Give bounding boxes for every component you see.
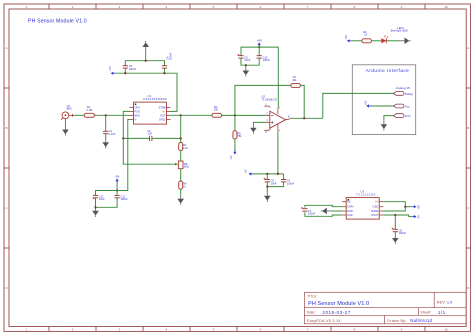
ground under C5 C4: [264, 192, 271, 202]
capacitor C12: [115, 195, 120, 197]
svg-text:PHsig: PHsig: [405, 92, 413, 96]
svg-text:Gnd: Gnd: [405, 114, 411, 118]
U3 pin names left: [347, 200, 354, 217]
node V- rail junction: [277, 173, 279, 175]
module box Arduino Interface: [352, 65, 415, 135]
title block divider Sheet: [417, 308, 419, 316]
frame zone letters left: [5, 46, 8, 290]
wire CAP- to C7 bottom: [305, 212, 342, 216]
power +5V arrow left Vcc: [366, 104, 371, 107]
svg-text:100nF: 100nF: [169, 52, 173, 60]
svg-text:Blue light 0603: Blue light 0603: [391, 29, 409, 33]
wire U3 SHDN to +5V: [383, 207, 405, 211]
U2 V- pin stub: [277, 124, 279, 133]
svg-text:B: B: [5, 126, 7, 130]
svg-text:STRB: STRB: [159, 106, 166, 110]
wire R9 down: [234, 139, 236, 151]
wire BNC to R1: [74, 114, 85, 116]
svg-text:+5V: +5V: [344, 35, 348, 40]
svg-text:+5V: +5V: [363, 100, 367, 105]
title block divider DrawnBy: [384, 315, 386, 324]
capacitor C11: [93, 195, 98, 197]
wire junction down to R9: [234, 115, 236, 130]
wire output to Arduino: [323, 93, 394, 118]
wire R4 to R5: [180, 151, 182, 161]
label R6 1k: [183, 182, 187, 189]
wire -5V rail U2: [254, 173, 284, 175]
wire -5V stem: [116, 183, 118, 190]
svg-text:-5V: -5V: [417, 215, 421, 219]
label C10 100nF: [263, 55, 271, 62]
connector U4 BNC: [61, 112, 74, 120]
capacitor C5: [265, 180, 270, 182]
U3 pin names right: [371, 200, 379, 217]
U2 plus sign: [271, 121, 273, 123]
node C11 bottom junction: [94, 206, 96, 208]
svg-text:OUT: OUT: [160, 113, 166, 117]
svg-text:CA3140AMZ96: CA3140AMZ96: [143, 97, 167, 101]
svg-text:Vcc: Vcc: [405, 105, 410, 109]
label R7 30k: [292, 75, 297, 82]
ground at U2 pin3: [250, 124, 257, 134]
svg-text:VOUT: VOUT: [371, 213, 379, 217]
op-amp U1 body: [134, 102, 167, 124]
node POS/C2 junction: [122, 137, 124, 139]
svg-text:100nF: 100nF: [129, 67, 137, 71]
title block outline: [304, 292, 466, 324]
svg-text:OFS: OFS: [134, 106, 140, 110]
svg-text:TL081BCD: TL081BCD: [262, 97, 277, 101]
capacitor C3: [123, 66, 128, 68]
svg-text:NC: NC: [347, 200, 351, 204]
wire VOUT junction to C8: [394, 215, 396, 229]
wire U3 V+ to +5V: [383, 202, 405, 207]
wire C4 top: [283, 174, 285, 180]
frame zone numbers bottom: [26, 328, 448, 332]
ground right of LED1: [401, 38, 411, 45]
node gnd rail junction: [145, 60, 147, 62]
label C9 rotated: [166, 52, 173, 60]
wire U2 output: [289, 117, 323, 119]
label C2 1uF: [147, 129, 152, 136]
label C7 100uF: [308, 209, 316, 216]
wire -5V junction down to C12: [116, 191, 118, 196]
wire BNC to ground: [64, 119, 66, 126]
wire C3 C9 top rail: [125, 61, 164, 66]
charge pump U3 body: [346, 198, 379, 220]
label R5 5KΩ: [184, 162, 189, 169]
wire U1 V- down to -5V rail: [118, 120, 129, 191]
wire C3 bottom: [124, 68, 126, 73]
capacitor C4: [281, 180, 286, 182]
label R9 75k: [237, 131, 242, 138]
node output junction: [303, 117, 305, 119]
capacitor C6: [238, 56, 243, 58]
svg-text:10uF: 10uF: [271, 181, 277, 185]
svg-text:10uF: 10uF: [99, 197, 105, 201]
svg-text:EasyEDA V5.3.14: EasyEDA V5.3.14: [307, 319, 341, 323]
svg-text:1uF: 1uF: [148, 131, 153, 135]
wire +5V to R2: [352, 40, 362, 42]
ground under C1: [102, 139, 109, 149]
LED LED1: [381, 36, 388, 44]
capacitor C9: [162, 66, 167, 68]
resistor R1: [84, 113, 94, 117]
U2 pin8 stub: [264, 129, 270, 131]
svg-text:POS: POS: [134, 109, 140, 113]
wire C2 right to chain: [152, 137, 181, 139]
wire junction to +5V arrow: [405, 206, 411, 208]
power -5V arrow down at R9: [233, 150, 236, 155]
wire U2 V- down to -5V rail: [277, 133, 279, 174]
node +5V right junction: [404, 206, 406, 208]
svg-text:BNC: BNC: [67, 107, 73, 111]
label C11 10uF: [99, 194, 105, 201]
svg-text:PH Sensor Module V1.0: PH Sensor Module V1.0: [308, 301, 369, 307]
wire +5V rail: [241, 47, 278, 108]
wire Gnd pin: [384, 116, 394, 121]
resistor R9: [233, 131, 237, 139]
U2 V+ pin stub: [277, 108, 279, 114]
wire OUT junction down: [180, 115, 182, 142]
wire GND pin to ground arrow: [330, 210, 342, 212]
C5 plus mark: [264, 178, 266, 180]
svg-text:NullnVo1d: NullnVo1d: [410, 318, 432, 323]
frame ticks left: [4, 88, 9, 248]
capacitor C7: [302, 209, 307, 211]
U1 left pin stubs: [130, 108, 134, 120]
svg-text:100nF: 100nF: [263, 58, 271, 62]
node C9 bottom: [163, 72, 165, 74]
ground under BNC: [62, 126, 69, 136]
svg-text:V+: V+: [162, 109, 166, 113]
svg-text:A: A: [467, 46, 469, 50]
capacitor C2: [150, 136, 152, 141]
svg-text:30k: 30k: [214, 108, 219, 112]
power +5V arrow left at U1 rail: [111, 72, 116, 75]
svg-text:TC1121COA: TC1121COA: [356, 193, 376, 197]
frame ticks top: [49, 4, 425, 9]
wire R3 to U2 pin2: [222, 114, 267, 116]
node C2 right junction: [180, 137, 182, 139]
U1 pin names left: [134, 106, 140, 122]
wire +5V stem to rail: [258, 45, 260, 56]
svg-text:100nF: 100nF: [120, 197, 128, 201]
svg-text:Date:: Date:: [307, 310, 316, 314]
svg-text:TITLE:: TITLE:: [307, 295, 317, 299]
capacitor C8: [393, 229, 398, 231]
power -5V arrow left U2: [249, 172, 254, 175]
label C5 10uF: [271, 179, 277, 186]
svg-text:+5V: +5V: [257, 39, 264, 43]
C7 plus mark: [301, 207, 303, 209]
ground under R6: [177, 195, 184, 205]
power +5V arrow right U3: [412, 205, 417, 208]
U1 pin1 dot: [135, 103, 137, 105]
wire R7 left leg: [235, 85, 291, 115]
svg-text:+5V: +5V: [417, 205, 421, 210]
resistor R4: [179, 143, 183, 151]
wire CAP+ to C7 top: [305, 205, 342, 207]
U3 left pin stubs: [342, 202, 346, 215]
wire -5V rail to C11: [96, 191, 118, 196]
wire R1 to U1 NEG: [94, 114, 129, 116]
svg-text:REV: 1.0: REV: 1.0: [437, 300, 453, 305]
svg-text:B: B: [467, 126, 469, 130]
U1 right pin stubs: [167, 108, 171, 120]
frame zone numbers top: [26, 5, 448, 9]
op-amp U2 triangle: [270, 111, 286, 128]
node VOUT junction: [394, 214, 396, 216]
U2 pin6 stub: [286, 118, 290, 121]
label C6 10uF: [244, 55, 250, 62]
wire LED1 to ground: [386, 40, 401, 42]
label U1 CA3140AMZ96: [143, 94, 167, 101]
resistor R2: [362, 39, 372, 43]
resistor R6: [179, 181, 183, 189]
node -5V rail junction: [116, 189, 118, 191]
svg-text:75k: 75k: [237, 134, 242, 138]
label C4 100nF: [287, 179, 295, 186]
svg-text:4.7M: 4.7M: [86, 108, 93, 112]
svg-text:2018-03-27: 2018-03-27: [322, 310, 351, 315]
title block divider REV: [433, 292, 435, 307]
svg-text:5KΩ: 5KΩ: [184, 165, 189, 169]
svg-text:SHDN: SHDN: [371, 209, 378, 213]
label R4 2.2k: [183, 143, 189, 150]
resistor R3: [212, 113, 222, 117]
node bottom rail junction: [245, 64, 247, 66]
pin Vcc flag: [393, 104, 404, 108]
power +5V arrow left LED: [347, 39, 352, 42]
wire junction to C2 left: [123, 137, 149, 139]
frame zone letters right: [467, 46, 470, 290]
capacitor C10: [257, 56, 262, 58]
svg-text:100nF: 100nF: [287, 181, 295, 185]
U3 pin1 dot: [348, 199, 350, 201]
ground under C8: [392, 235, 399, 245]
ground under Gnd pin: [381, 121, 388, 131]
wire C11 C12 bottom rail: [96, 198, 118, 207]
wire C6 C10 bottom rail: [241, 58, 259, 65]
node C5 top junction: [266, 173, 268, 175]
label C12 100nF: [120, 194, 128, 201]
title block row line 1: [304, 307, 466, 309]
capacitor C1: [103, 131, 108, 133]
wire U2 pin3 to ground: [253, 122, 266, 124]
wire U3 VOUT to -5V arrow: [383, 215, 411, 217]
pin Gnd flag: [393, 114, 404, 118]
wire U1 OUT to R3: [171, 114, 213, 116]
label R2 1k: [363, 30, 367, 37]
svg-text:-5V: -5V: [229, 155, 233, 159]
wire Vcc pin: [371, 105, 394, 107]
svg-text:NEG: NEG: [134, 113, 140, 117]
label LED1 Blue light 0603: [391, 26, 409, 33]
svg-text:GND: GND: [347, 209, 353, 213]
node +5V rail junction: [258, 46, 260, 48]
svg-text:100uF: 100uF: [308, 212, 316, 216]
svg-text:Drawn By:: Drawn By:: [387, 319, 406, 323]
svg-text:A: A: [5, 46, 7, 50]
C8 plus mark: [392, 228, 394, 230]
R5 wiper arrow: [175, 163, 178, 166]
wire R2 to LED1: [371, 40, 381, 42]
U2 pin3 stub: [266, 121, 270, 123]
frame ticks bottom: [49, 327, 425, 332]
label C1 2.2nF: [109, 129, 116, 136]
svg-text:10: 10: [444, 328, 448, 332]
wire U1 POS to feedback column: [123, 111, 175, 164]
wire C5 C4 bottom rail: [267, 182, 283, 187]
svg-text:10uF: 10uF: [244, 58, 250, 62]
label U4 BNC: [67, 104, 73, 111]
svg-text:Analog 15: Analog 15: [396, 86, 410, 90]
ground under C6 C10: [245, 65, 247, 67]
wire R6 to ground: [180, 189, 182, 195]
wire C9 bottom: [164, 68, 166, 73]
wire C1 to ground: [105, 134, 107, 139]
svg-text:100uF: 100uF: [399, 231, 407, 235]
svg-text:1/1: 1/1: [438, 310, 446, 315]
label R1 4.7M: [86, 105, 93, 112]
wire R5 to R6: [180, 169, 182, 181]
wire +5V rail under C3 C9: [116, 73, 177, 111]
wire R7 right leg: [300, 85, 304, 118]
svg-text:OFS2: OFS2: [159, 118, 166, 122]
op-amp U2 label: [262, 95, 277, 102]
U2 pin2 stub: [266, 114, 270, 116]
power +5V arrow up top: [258, 42, 261, 47]
U1 pin names right: [159, 106, 166, 122]
resistor R7: [291, 83, 301, 87]
wire junction to C1: [105, 115, 107, 131]
pin PHsig flag: [393, 92, 404, 96]
svg-text:PH Sensor Module V1.0: PH Sensor Module V1.0: [28, 18, 87, 24]
power -5V arrow up: [116, 178, 119, 183]
svg-text:2.2nF: 2.2nF: [109, 132, 116, 136]
wire C5 bottom to ground: [266, 187, 268, 193]
power -5V arrow right U3: [412, 215, 417, 218]
C11 plus mark: [93, 197, 95, 199]
svg-text:10: 10: [444, 5, 448, 9]
svg-text:Sheet:: Sheet:: [420, 310, 431, 314]
svg-text:2.2k: 2.2k: [183, 146, 189, 150]
svg-text:V+: V+: [375, 200, 379, 204]
svg-text:30k: 30k: [292, 78, 297, 82]
U2 pin1 stub: [264, 106, 270, 108]
title block row line 2: [304, 314, 466, 316]
ground left of U3: [321, 208, 331, 215]
node OUT junction: [180, 114, 182, 116]
ground under C11: [92, 207, 99, 217]
svg-text:V-: V-: [134, 118, 137, 122]
svg-text:CAP-: CAP-: [347, 213, 353, 217]
svg-text:-5V: -5V: [244, 169, 248, 173]
C6 plus mark: [237, 54, 239, 56]
U2 minus sign: [271, 114, 273, 116]
node C3 bottom: [124, 72, 126, 74]
svg-text:Arduino Interface: Arduino Interface: [366, 68, 410, 73]
resistor R5 preset: [178, 161, 183, 169]
node input junction: [105, 114, 107, 116]
label R3 30k: [214, 105, 219, 112]
frame ticks right: [466, 88, 470, 248]
label C8 100uF: [399, 228, 407, 235]
node inverting input junction: [234, 114, 236, 116]
svg-text:CAP+: CAP+: [347, 205, 354, 209]
label U3 TC1121COA: [356, 190, 376, 197]
svg-text:OSC: OSC: [373, 205, 379, 209]
node C5 bottom junction: [266, 186, 268, 188]
svg-text:+5V: +5V: [108, 66, 112, 71]
wire C8 to ground: [394, 232, 396, 235]
wire C5 top: [266, 174, 268, 180]
label C3 100nF: [129, 64, 137, 71]
ground top of C3 C9 rail: [145, 51, 147, 61]
U3 right pin stubs: [379, 202, 383, 215]
